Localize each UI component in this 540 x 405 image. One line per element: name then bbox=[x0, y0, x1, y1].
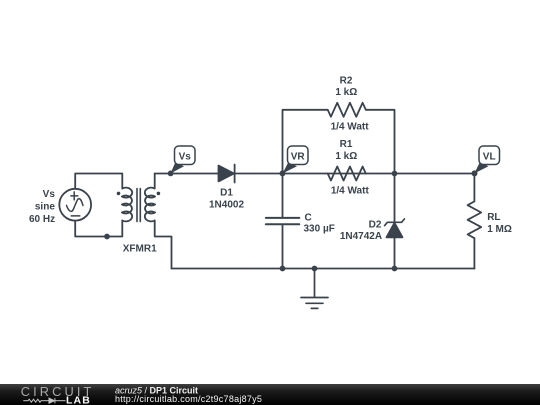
voltage source V1 circle bbox=[59, 189, 91, 221]
svg-text:R1: R1 bbox=[340, 139, 353, 150]
junction dot R2/D2 branch bbox=[392, 171, 398, 177]
junction dot capacitor bottom bbox=[280, 266, 286, 272]
flag VL bbox=[472, 146, 500, 176]
resistor R1 zigzag bbox=[328, 167, 366, 181]
svg-text:D2: D2 bbox=[369, 220, 382, 231]
flag VR bbox=[280, 146, 308, 176]
voltage source plus sign bbox=[71, 192, 78, 200]
voltage source minus sign bbox=[71, 215, 80, 217]
ground symbol bbox=[301, 269, 328, 309]
footer bar bbox=[0, 384, 540, 405]
wire bottom rail bbox=[172, 268, 475, 270]
wire source top loop bbox=[75, 174, 122, 190]
zener diode D2 bottom lead bbox=[394, 237, 396, 268]
logo doodle diode bbox=[49, 398, 54, 403]
svg-text:1N4742A: 1N4742A bbox=[340, 231, 382, 242]
logo doodle wire bbox=[23, 398, 65, 403]
transformer XFMR1 secondary coil bbox=[145, 188, 155, 222]
svg-text:330 µF: 330 µF bbox=[304, 223, 335, 234]
transformer secondary phasing dot bbox=[157, 192, 161, 196]
logo doodle resistor bbox=[28, 399, 41, 402]
svg-text:1/4 Watt: 1/4 Watt bbox=[331, 122, 370, 133]
flag Vs bbox=[168, 146, 195, 176]
svg-text:XFMR1: XFMR1 bbox=[123, 244, 157, 255]
resistor R2 branch wires bbox=[283, 110, 395, 174]
svg-text:VR: VR bbox=[291, 151, 306, 162]
node VL junction dot bbox=[472, 171, 478, 177]
diode D1 cathode bar bbox=[234, 165, 236, 183]
svg-text:http://circuitlab.com/c2t9c78a: http://circuitlab.com/c2t9c78aj87y5 bbox=[115, 394, 262, 404]
logo doodle wire3 bbox=[55, 400, 66, 402]
svg-text:LAB: LAB bbox=[66, 395, 91, 405]
svg-text:sine: sine bbox=[35, 201, 55, 212]
capacitor C top lead bbox=[282, 174, 284, 217]
zener diode D2 top lead bbox=[394, 174, 396, 223]
svg-text:R2: R2 bbox=[340, 75, 353, 86]
wire secondary bottom lead bbox=[155, 221, 172, 269]
voltage source sine wave bbox=[67, 199, 84, 212]
wire secondary top lead bbox=[154, 174, 156, 189]
resistor R2 zigzag bbox=[328, 103, 366, 117]
svg-text:1 MΩ: 1 MΩ bbox=[487, 224, 512, 235]
wire top rail Vs node to VL node bbox=[155, 173, 475, 175]
zener diode D2 triangle bbox=[387, 223, 403, 238]
wire source bottom loop bbox=[75, 221, 122, 237]
transformer XFMR1 core bbox=[137, 189, 140, 222]
svg-text:1 kΩ: 1 kΩ bbox=[335, 87, 357, 98]
svg-text:Vs: Vs bbox=[43, 189, 56, 200]
junction dot source bottom bbox=[104, 234, 110, 240]
capacitor C bottom lead bbox=[282, 225, 284, 268]
svg-text:1N4002: 1N4002 bbox=[209, 200, 244, 211]
svg-text:D1: D1 bbox=[220, 188, 233, 199]
capacitor C plates bbox=[266, 218, 300, 224]
svg-text:1/4 Watt: 1/4 Watt bbox=[331, 186, 370, 197]
transformer primary phasing dot bbox=[117, 192, 121, 196]
junction dot ground bbox=[312, 266, 318, 272]
svg-text:Vs: Vs bbox=[179, 151, 192, 162]
transformer XFMR1 primary coil bbox=[122, 188, 132, 222]
resistor RL top lead bbox=[473, 174, 475, 202]
junction dot D2 bottom bbox=[392, 266, 398, 272]
diode D1 triangle bbox=[219, 166, 235, 182]
resistor RL bottom lead bbox=[473, 238, 475, 268]
svg-text:C: C bbox=[305, 213, 312, 224]
logo doodle wire2 bbox=[41, 400, 49, 402]
svg-text:VL: VL bbox=[483, 151, 496, 162]
zener diode D2 cathode bar with hooks bbox=[385, 219, 405, 226]
svg-text:1 kΩ: 1 kΩ bbox=[335, 151, 357, 162]
node VR junction dot bbox=[280, 171, 286, 177]
svg-text:RL: RL bbox=[487, 212, 500, 223]
resistor RL zigzag bbox=[468, 201, 482, 238]
svg-text:60 Hz: 60 Hz bbox=[29, 214, 55, 225]
